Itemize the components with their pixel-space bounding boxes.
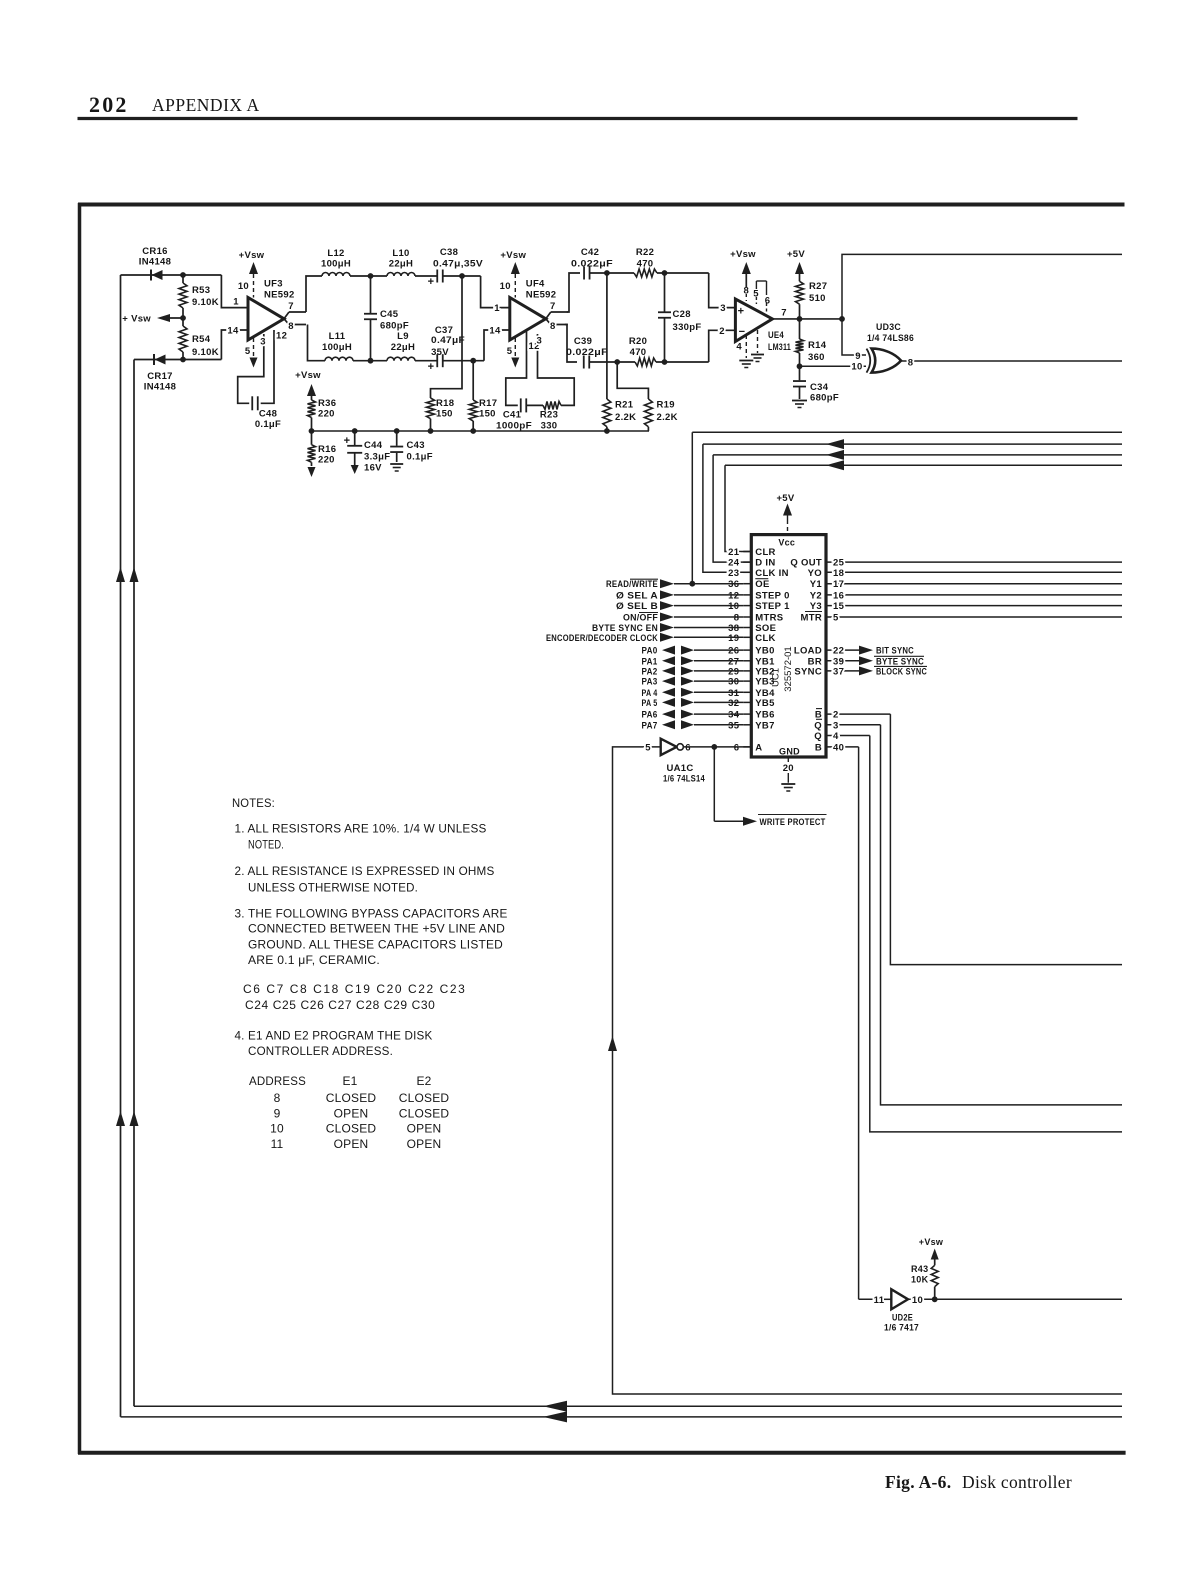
svg-text:−: −	[739, 326, 746, 338]
svg-text:L11: L11	[329, 331, 346, 342]
svg-text:32: 32	[728, 698, 739, 709]
svg-text:R18: R18	[436, 398, 454, 409]
svg-text:8: 8	[288, 321, 294, 332]
svg-text:1/6 74LS14: 1/6 74LS14	[663, 774, 705, 785]
svg-text:1000pF: 1000pF	[496, 421, 532, 432]
svg-text:CONTROLLER ADDRESS.: CONTROLLER ADDRESS.	[248, 1044, 393, 1058]
svg-text:E1: E1	[342, 1074, 357, 1088]
svg-text:11: 11	[271, 1137, 284, 1151]
svg-text:Ø SEL B: Ø SEL B	[616, 601, 658, 612]
svg-text:Disk controller: Disk controller	[962, 1472, 1072, 1492]
svg-text:2: 2	[833, 710, 839, 721]
svg-text:OE: OE	[755, 579, 769, 590]
svg-text:17: 17	[833, 579, 844, 590]
svg-text:6: 6	[765, 296, 771, 307]
svg-text:CLOSED: CLOSED	[326, 1091, 377, 1105]
svg-text:GND: GND	[779, 747, 800, 757]
svg-text:R20: R20	[629, 336, 647, 347]
svg-text:3: 3	[537, 336, 543, 347]
svg-text:E2: E2	[416, 1074, 431, 1088]
svg-text:35: 35	[728, 720, 740, 731]
svg-text:R16: R16	[318, 444, 336, 455]
svg-text:MTRS: MTRS	[755, 613, 783, 624]
svg-text:9.10K: 9.10K	[192, 297, 219, 308]
svg-text:8: 8	[908, 358, 914, 369]
svg-text:NE592: NE592	[264, 290, 295, 301]
svg-text:PA0: PA0	[642, 646, 658, 657]
svg-text:8: 8	[734, 613, 740, 624]
svg-text:10: 10	[851, 362, 862, 373]
svg-text:UD2E: UD2E	[892, 1313, 913, 1323]
svg-text:8: 8	[744, 286, 750, 297]
svg-text:C42: C42	[581, 247, 599, 258]
svg-text:GROUND. ALL THESE CAPACITORS: GROUND. ALL THESE CAPACITORS LISTED	[248, 937, 503, 951]
svg-text:R43: R43	[911, 1264, 928, 1274]
svg-text:680pF: 680pF	[380, 321, 409, 332]
svg-text:OPEN: OPEN	[334, 1137, 369, 1151]
svg-text:150: 150	[436, 409, 453, 420]
svg-text:STEP 0: STEP 0	[755, 590, 789, 601]
svg-text:19: 19	[728, 633, 739, 644]
svg-text:C24 C25 C26 C27 C28 C29: C24 C25 C26 C27 C28 C29 C30	[245, 998, 435, 1012]
svg-text:22μH: 22μH	[391, 342, 415, 353]
svg-text:R36: R36	[318, 398, 336, 409]
svg-text:40: 40	[833, 742, 844, 753]
svg-text:OPEN: OPEN	[407, 1122, 442, 1136]
svg-text:CONNECTED BETWEEN THE +5V LIN: CONNECTED BETWEEN THE +5V LINE AND	[248, 922, 505, 936]
svg-text:R23: R23	[540, 410, 558, 421]
svg-text:OPEN: OPEN	[407, 1137, 442, 1151]
svg-text:LM311: LM311	[768, 342, 791, 353]
svg-text:C45: C45	[380, 309, 399, 320]
svg-text:NOTED.: NOTED.	[248, 838, 284, 852]
svg-text:YB7: YB7	[755, 720, 774, 731]
svg-text:16V: 16V	[364, 463, 382, 474]
svg-text:12: 12	[276, 331, 287, 342]
svg-text:5: 5	[645, 742, 651, 753]
svg-text:0.1μF: 0.1μF	[255, 419, 281, 430]
svg-text:CR16: CR16	[142, 246, 168, 257]
svg-text:12: 12	[728, 590, 739, 601]
svg-text:CR17: CR17	[147, 371, 173, 382]
svg-text:+: +	[738, 306, 745, 318]
svg-text:330: 330	[541, 421, 558, 432]
svg-text:R14: R14	[808, 340, 827, 351]
svg-text:APPENDIX A: APPENDIX A	[152, 95, 260, 115]
svg-text:CLK IN: CLK IN	[755, 568, 788, 579]
svg-text:B: B	[815, 742, 822, 753]
svg-text:3. THE FOLLOWING BYPASS CAPAC: 3. THE FOLLOWING BYPASS CAPACITORS ARE	[235, 906, 508, 920]
svg-text:34: 34	[728, 710, 740, 721]
svg-text:CLOSED: CLOSED	[326, 1122, 377, 1136]
svg-text:LOAD: LOAD	[794, 646, 822, 657]
svg-text:C43: C43	[407, 440, 425, 451]
svg-text:3: 3	[833, 720, 839, 731]
svg-text:3.3μF: 3.3μF	[364, 452, 390, 463]
svg-text:IN4148: IN4148	[144, 382, 176, 393]
svg-text:16: 16	[833, 590, 844, 601]
svg-text:5: 5	[245, 346, 251, 357]
svg-text:150: 150	[479, 409, 496, 420]
svg-text:Y2: Y2	[810, 590, 822, 601]
svg-text:6: 6	[734, 742, 740, 753]
svg-text:8: 8	[274, 1091, 281, 1105]
svg-text:37: 37	[833, 666, 844, 677]
svg-text:1: 1	[494, 303, 500, 314]
svg-text:14: 14	[489, 326, 501, 337]
svg-text:21: 21	[728, 547, 740, 558]
svg-text:C48: C48	[259, 409, 277, 420]
svg-text:ADDRESS: ADDRESS	[249, 1074, 306, 1088]
svg-text:YB0: YB0	[755, 646, 774, 657]
svg-text:26: 26	[728, 646, 739, 657]
svg-text:220: 220	[318, 409, 335, 420]
svg-text:Y3: Y3	[810, 601, 822, 612]
svg-text:STEP 1: STEP 1	[755, 601, 790, 612]
svg-text:R27: R27	[809, 281, 827, 292]
svg-text:UF4: UF4	[526, 279, 545, 290]
svg-text:YB6: YB6	[755, 710, 774, 721]
svg-text:+: +	[428, 276, 435, 288]
svg-text:7: 7	[550, 301, 556, 312]
svg-text:5: 5	[833, 613, 839, 624]
svg-text:36: 36	[728, 579, 739, 590]
svg-text:PA 5: PA 5	[642, 698, 658, 709]
svg-text:0.022μF: 0.022μF	[566, 347, 608, 358]
svg-text:11: 11	[874, 1295, 885, 1306]
svg-text:Fig. A-6.: Fig. A-6.	[885, 1472, 951, 1492]
svg-text:9: 9	[855, 351, 861, 362]
svg-text:1: 1	[233, 297, 239, 308]
svg-text:10: 10	[728, 601, 739, 612]
svg-text:Y1: Y1	[810, 579, 823, 590]
svg-text:2: 2	[719, 326, 725, 337]
svg-text:6: 6	[685, 742, 691, 753]
svg-text:4: 4	[736, 342, 742, 353]
svg-text:R53: R53	[192, 285, 210, 296]
svg-text:C38: C38	[440, 247, 458, 258]
svg-text:10: 10	[500, 281, 511, 292]
svg-text:35V: 35V	[431, 347, 449, 358]
svg-text:10K: 10K	[911, 1275, 929, 1285]
svg-text:L12: L12	[327, 248, 344, 259]
svg-text:+Vsw: +Vsw	[500, 250, 526, 261]
svg-text:CLK: CLK	[755, 633, 775, 644]
svg-text:PA7: PA7	[642, 720, 658, 731]
svg-text:PA6: PA6	[642, 710, 658, 721]
svg-text:R22: R22	[636, 247, 654, 258]
svg-text:202: 202	[89, 92, 129, 117]
svg-text:R19: R19	[657, 400, 675, 411]
svg-text:22: 22	[833, 646, 844, 657]
svg-text:CLR: CLR	[755, 547, 775, 558]
svg-text:3: 3	[260, 337, 266, 348]
svg-text:A: A	[755, 742, 762, 753]
svg-text:C39: C39	[574, 336, 592, 347]
svg-text:+Vsw: +Vsw	[730, 249, 756, 260]
svg-text:10: 10	[912, 1295, 923, 1306]
svg-text:Q: Q	[814, 731, 822, 742]
svg-text:0.1μF: 0.1μF	[407, 452, 433, 463]
svg-text:CLOSED: CLOSED	[399, 1091, 450, 1105]
svg-text:510: 510	[809, 293, 826, 304]
svg-text:+ Vsw: + Vsw	[122, 314, 151, 325]
svg-text:1/6 7417: 1/6 7417	[884, 1323, 919, 1333]
svg-text:10: 10	[270, 1122, 284, 1136]
svg-text:C34: C34	[810, 382, 829, 393]
svg-text:680pF: 680pF	[810, 393, 839, 404]
svg-text:WRITE PROTECT: WRITE PROTECT	[760, 817, 826, 828]
svg-text:YB5: YB5	[755, 698, 775, 709]
svg-text:ON/OFF: ON/OFF	[623, 613, 658, 624]
svg-text:360: 360	[808, 352, 825, 363]
svg-text:7: 7	[288, 301, 294, 312]
svg-text:NOTES:: NOTES:	[232, 796, 275, 810]
svg-text:2.2K: 2.2K	[615, 412, 636, 423]
svg-text:14: 14	[227, 326, 239, 337]
svg-text:R21: R21	[615, 400, 634, 411]
svg-text:1. ALL RESISTORS ARE 10%. 1/4: 1. ALL RESISTORS ARE 10%. 1/4 W UNLESS	[235, 822, 487, 836]
svg-text:READ/WRITE: READ/WRITE	[606, 579, 658, 590]
svg-text:2.2K: 2.2K	[657, 412, 678, 423]
svg-text:L9: L9	[397, 331, 409, 342]
svg-text:220: 220	[318, 455, 335, 466]
svg-text:+Vsw: +Vsw	[239, 250, 265, 261]
svg-text:BLOCK SYNC: BLOCK SYNC	[876, 666, 927, 677]
svg-text:9.10K: 9.10K	[192, 347, 219, 358]
svg-text:ENCODER/DECODER CLOCK: ENCODER/DECODER CLOCK	[546, 633, 658, 644]
svg-text:+Vsw: +Vsw	[295, 370, 321, 381]
svg-text:PA3: PA3	[642, 677, 658, 688]
svg-text:UNLESS OTHERWISE NOTED.: UNLESS OTHERWISE NOTED.	[248, 880, 418, 894]
svg-text:+: +	[344, 435, 351, 447]
svg-text:R54: R54	[192, 334, 211, 345]
svg-text:Ø SEL A: Ø SEL A	[616, 590, 658, 601]
svg-text:22μH: 22μH	[389, 259, 413, 270]
svg-text:9: 9	[274, 1107, 281, 1121]
svg-text:UA1C: UA1C	[666, 763, 693, 774]
svg-text:325572-01: 325572-01	[783, 646, 794, 691]
svg-text:R17: R17	[479, 398, 497, 409]
svg-text:C44: C44	[364, 440, 383, 451]
svg-text:+Vsw: +Vsw	[919, 1237, 944, 1247]
svg-text:C41: C41	[503, 410, 522, 421]
svg-text:0.022μF: 0.022μF	[571, 259, 613, 270]
svg-text:0.47μ,35V: 0.47μ,35V	[433, 259, 483, 270]
svg-text:10: 10	[238, 281, 249, 292]
svg-text:4. E1 AND E2 PROGRAM THE DISK: 4. E1 AND E2 PROGRAM THE DISK	[235, 1029, 433, 1043]
svg-text:5: 5	[507, 346, 513, 357]
svg-text:ARE 0.1 μF, CERAMIC.: ARE 0.1 μF, CERAMIC.	[248, 953, 380, 967]
svg-text:YO: YO	[808, 568, 822, 579]
svg-text:SYNC: SYNC	[794, 666, 822, 677]
svg-text:8: 8	[550, 321, 556, 332]
svg-text:UC1: UC1	[771, 668, 782, 687]
svg-text:470: 470	[637, 259, 654, 270]
svg-text:Vcc: Vcc	[778, 538, 795, 548]
svg-text:MTR: MTR	[801, 613, 822, 624]
svg-text:L10: L10	[392, 248, 409, 259]
svg-text:5: 5	[753, 289, 759, 300]
svg-text:+: +	[428, 361, 435, 373]
svg-text:C28: C28	[673, 309, 691, 320]
svg-text:23: 23	[728, 568, 739, 579]
svg-text:+5V: +5V	[787, 249, 805, 260]
svg-text:Q: Q	[814, 720, 822, 731]
svg-text:4: 4	[833, 731, 839, 742]
svg-text:20: 20	[783, 763, 794, 774]
svg-text:330pF: 330pF	[673, 322, 702, 333]
svg-text:7: 7	[781, 308, 787, 319]
svg-text:1/4 74LS86: 1/4 74LS86	[867, 333, 914, 344]
svg-text:100μH: 100μH	[322, 342, 352, 353]
svg-text:+5V: +5V	[776, 493, 794, 504]
svg-text:UF3: UF3	[264, 279, 283, 290]
svg-text:CLOSED: CLOSED	[399, 1107, 450, 1121]
svg-text:100μH: 100μH	[321, 259, 351, 270]
svg-text:UD3C: UD3C	[876, 322, 901, 333]
svg-text:15: 15	[833, 601, 845, 612]
svg-text:18: 18	[833, 568, 844, 579]
svg-text:UE4: UE4	[768, 330, 784, 341]
svg-text:IN4148: IN4148	[139, 257, 171, 268]
svg-text:470: 470	[630, 347, 647, 358]
svg-text:BIT SYNC: BIT SYNC	[876, 646, 914, 657]
svg-text:OPEN: OPEN	[334, 1107, 369, 1121]
svg-text:2. ALL RESISTANCE IS EXPRESSE: 2. ALL RESISTANCE IS EXPRESSED IN OHMS	[235, 864, 495, 878]
svg-text:NE592: NE592	[526, 290, 557, 301]
svg-text:30: 30	[728, 677, 739, 688]
svg-text:0.47μF: 0.47μF	[431, 335, 465, 346]
svg-text:3: 3	[720, 303, 726, 314]
svg-text:C6 C7 C8 C18 C19 C: C6 C7 C8 C18 C19 C20 C22 C23	[243, 982, 465, 996]
